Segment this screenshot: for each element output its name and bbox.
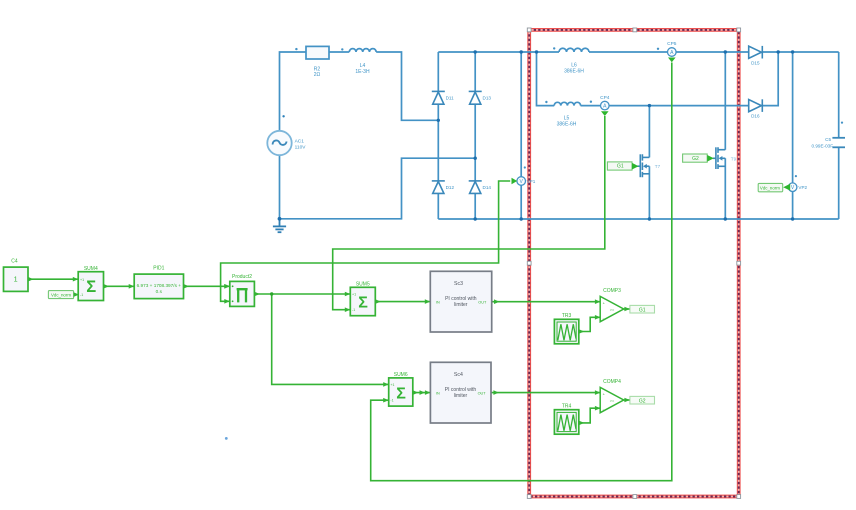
svg-text:D12: D12 [446, 185, 455, 190]
product block Product2 [230, 274, 260, 306]
node L5 branch top [535, 50, 538, 53]
subsystem Sc3 [425, 271, 500, 332]
wire AC1 bottom to ground [279, 155, 281, 219]
svg-text:CP4: CP4 [600, 95, 610, 101]
comparator COMP4 [595, 379, 624, 413]
gate label G2 [683, 154, 714, 162]
wire COMP4 to G2 [624, 399, 630, 401]
svg-text:386E-6H: 386E-6H [557, 122, 577, 128]
ammeter CP5 [667, 41, 677, 56]
wire bridge left rail [437, 52, 439, 219]
node D16 output [777, 50, 780, 53]
wire PID1 to Product2 [184, 285, 230, 287]
wire CP4 sense to SUM5 [333, 116, 605, 310]
wire VP1 branch [520, 52, 522, 219]
node L4-bridge [437, 119, 440, 122]
marker dot left of L5 [545, 101, 547, 103]
svg-text:Σ: Σ [396, 385, 406, 402]
node AC ground [278, 217, 282, 221]
node Product2 output branch [270, 292, 273, 295]
pid controller PID1 [134, 266, 230, 299]
wire L5 to D16 [581, 105, 749, 107]
sum block SUM5 [345, 282, 381, 316]
ammeter CP4 [600, 95, 610, 110]
wire dc top bus [438, 51, 838, 53]
svg-text:0.99E-03F: 0.99E-03F [812, 144, 834, 149]
wire VP1 sense to Product2 [221, 181, 511, 301]
resistor R2 [306, 46, 329, 78]
svg-text:Σ: Σ [358, 294, 368, 311]
node T7 drain bus [648, 104, 651, 107]
svg-text:IN: IN [436, 391, 440, 395]
svg-text:1: 1 [14, 275, 18, 284]
svg-text:+1: +1 [390, 383, 394, 387]
node T9 top [724, 50, 727, 53]
ground [273, 219, 286, 232]
wire R2 to L4 [329, 51, 349, 53]
svg-text:-1: -1 [390, 399, 393, 403]
voltage probe arrow VP1 [512, 178, 518, 185]
selection handles of red frame [527, 28, 740, 498]
voltmeter VP1 [517, 177, 536, 186]
wire SUM5 to Sc3 [375, 301, 430, 303]
current probe arrow CP5 [668, 58, 676, 63]
stray dot [225, 437, 228, 440]
mosfet T7 [637, 154, 649, 177]
node VP1 bottom [520, 217, 523, 220]
svg-text:>=: >= [610, 308, 615, 312]
svg-text:TR3: TR3 [562, 313, 572, 319]
node VP1 top [520, 50, 523, 53]
svg-text:limiter: limiter [454, 302, 468, 308]
diode D11 [432, 91, 445, 104]
svg-text:D13: D13 [483, 96, 492, 101]
svg-text:IN: IN [436, 300, 440, 304]
node T7 bottom [648, 217, 651, 220]
capacitor C5 [832, 138, 845, 148]
inductor L4 [349, 49, 376, 75]
voltmeter VP2 [788, 183, 807, 192]
wire Product2 branch to SUM6 [272, 294, 389, 384]
node D14 bottom [474, 217, 477, 220]
current probe arrow CP4 [601, 111, 609, 116]
svg-text:VP2: VP2 [798, 185, 807, 190]
svg-text:C4: C4 [11, 259, 18, 265]
svg-text:G2: G2 [692, 156, 699, 162]
svg-text:T7: T7 [655, 164, 661, 169]
svg-text:OUT: OUT [478, 391, 487, 395]
output label G1 [624, 305, 654, 313]
diode D14 [469, 181, 482, 194]
svg-text:6.973 + 1708.397/s +: 6.973 + 1708.397/s + [137, 283, 182, 288]
svg-text:TR4: TR4 [562, 404, 572, 410]
wire SUM6 to Sc4 [413, 392, 431, 394]
svg-text:C5: C5 [825, 137, 831, 142]
wire T9 drain and source rail [724, 52, 726, 219]
arrowhead Product2 lower input [224, 299, 230, 304]
arrowhead Product2 upper input [224, 284, 230, 289]
svg-text:D15: D15 [751, 60, 760, 65]
svg-text:D11: D11 [446, 96, 455, 101]
marker dot left of R2 [295, 48, 297, 50]
wire CP5 sense to SUM6 [371, 63, 672, 481]
constant C4 [4, 259, 79, 292]
subsystem boundary red dashed frame [529, 30, 739, 497]
wire SUM4 to PID1 [104, 285, 135, 287]
marker dot near C5 [841, 122, 843, 124]
wire bridge right rail [474, 52, 476, 219]
svg-text:Vdc_norm: Vdc_norm [760, 185, 780, 190]
marker dot near VP2 [795, 175, 797, 177]
signal label Vdc_norm at SUM4 [48, 291, 79, 299]
marker dot left of L6 [553, 47, 555, 49]
svg-text:+1: +1 [352, 293, 356, 297]
svg-text:Σ: Σ [86, 278, 96, 296]
wire T7 drain and source rail [648, 106, 650, 219]
output label G2 [624, 396, 654, 404]
svg-text:G1: G1 [617, 164, 624, 170]
inductor L5 [554, 102, 580, 127]
svg-text:AC1: AC1 [295, 138, 305, 144]
svg-text:COMP3: COMP3 [603, 288, 621, 294]
svg-text:OUT: OUT [478, 300, 487, 304]
inductor L6 [559, 48, 589, 74]
wire TR4 to COMP4 [579, 408, 600, 423]
gate label G1 [607, 162, 638, 170]
wire Product2 to SUM5 [254, 293, 350, 295]
marker dot near VP1 [524, 166, 526, 168]
svg-text:110V: 110V [295, 144, 307, 150]
svg-text:D14: D14 [483, 185, 492, 190]
diode D16 [749, 99, 763, 112]
signal label Vdc_norm at VP2 [758, 183, 790, 191]
wire ground bus to D13-D14 midpoint [280, 158, 476, 219]
marker dot left of L4 [341, 48, 343, 50]
mosfet T9 [713, 147, 726, 169]
wire Sc4 to COMP4 [491, 392, 600, 394]
diode D13 [469, 91, 482, 104]
svg-text:COMP4: COMP4 [603, 379, 621, 385]
svg-text:>=: >= [610, 399, 615, 403]
svg-text:-1: -1 [352, 308, 355, 312]
svg-text:D16: D16 [751, 114, 760, 119]
svg-text:0.s: 0.s [156, 289, 163, 294]
node D13 top [474, 50, 477, 53]
wire Sc3 to COMP3 [492, 301, 601, 303]
subsystem Sc4 [425, 362, 499, 423]
wire AC1 top to R2 [280, 52, 307, 131]
wire L5 branch from top bus [537, 52, 555, 106]
marker dot near AC1 [282, 115, 284, 117]
svg-text:VP1: VP1 [527, 179, 536, 184]
svg-text:Sc4: Sc4 [454, 372, 463, 378]
svg-text:Product2: Product2 [232, 274, 252, 280]
comparator COMP3 [595, 288, 624, 322]
node ground-bridge [474, 157, 477, 160]
wire C5 branch [838, 52, 840, 219]
ac source AC1 [267, 131, 306, 155]
svg-text:T9: T9 [731, 156, 737, 161]
marker dot left of CP5 [657, 48, 659, 50]
node T9 bottom [724, 217, 727, 220]
wire TR3 to COMP3 [579, 317, 600, 331]
diode D12 [432, 181, 445, 194]
svg-text:Sc3: Sc3 [454, 281, 463, 287]
wire VP2 branch [792, 52, 794, 219]
svg-text:-1: -1 [80, 293, 83, 297]
wire COMP3 to G1 [624, 308, 630, 310]
sum block SUM4 [78, 266, 134, 301]
wire L4 to bridge midpoint node [376, 52, 438, 120]
node VP2 bottom [791, 217, 794, 220]
svg-text:G1: G1 [639, 307, 646, 313]
wire dc bottom bus [438, 218, 838, 220]
svg-text:386E-6H: 386E-6H [564, 68, 584, 74]
svg-text:PID1: PID1 [153, 266, 164, 272]
marker dot right of L5 [590, 101, 592, 103]
wire C4 to SUM4 [28, 278, 78, 280]
node VP2 top [791, 50, 794, 53]
svg-text:G2: G2 [639, 398, 646, 404]
triangle generator TR3 [554, 313, 584, 344]
svg-text:2Ω: 2Ω [314, 72, 321, 78]
sum block SUM6 [383, 372, 425, 406]
svg-text:Vdc_norm: Vdc_norm [51, 293, 71, 298]
svg-text:1E-3H: 1E-3H [355, 69, 370, 75]
wire D16 cathode up to output bus [762, 52, 778, 106]
triangle generator TR4 [554, 404, 584, 435]
svg-text:limiter: limiter [454, 393, 468, 399]
svg-text:+1: +1 [80, 278, 84, 282]
diode D15 [749, 46, 763, 59]
svg-text:CP5: CP5 [667, 41, 677, 47]
